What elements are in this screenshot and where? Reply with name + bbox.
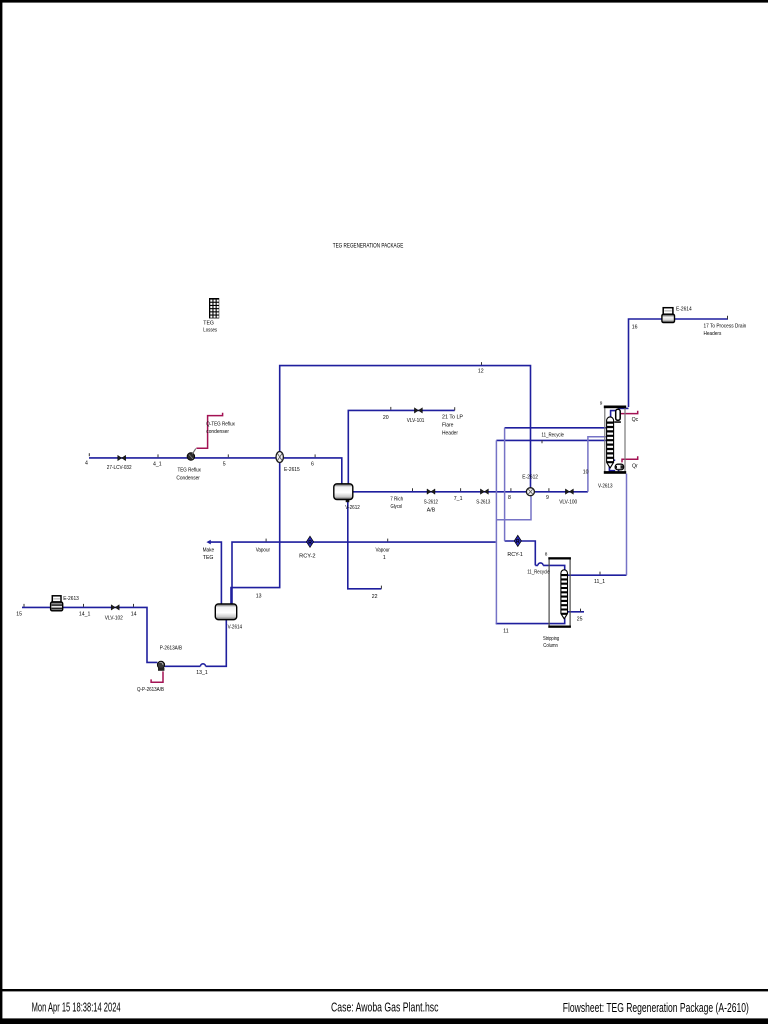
svg-text:VLV-101: VLV-101 [407,418,425,424]
svg-text:25: 25 [577,617,583,623]
svg-text:Vapour: Vapour [376,548,391,554]
svg-text:P-2613A/B: P-2613A/B [160,646,183,652]
svg-text:Vapour: Vapour [256,548,271,554]
svg-text:Case: Awoba Gas Plant.hsc: Case: Awoba Gas Plant.hsc [331,1000,439,1015]
svg-text:11_Recycle: 11_Recycle [542,432,565,438]
svg-text:S-2612: S-2612 [424,500,438,506]
svg-text:RCY-1: RCY-1 [507,552,523,558]
svg-text:E-2614: E-2614 [676,306,692,312]
svg-text:Make: Make [203,548,215,554]
svg-text:TEG: TEG [203,320,214,326]
svg-text:A/B: A/B [427,507,436,513]
svg-text:Header: Header [442,431,458,437]
svg-text:11_Recycle: 11_Recycle [527,570,550,576]
svg-text:V-2613: V-2613 [598,483,613,489]
svg-text:12: 12 [478,369,484,375]
svg-text:RCY-2: RCY-2 [299,554,316,560]
svg-text:4_1: 4_1 [153,461,162,467]
svg-text:TEG REGENERATION PACKAGE: TEG REGENERATION PACKAGE [333,243,404,250]
svg-text:R: R [516,539,520,545]
svg-text:14: 14 [131,611,137,617]
svg-text:15: 15 [16,611,22,617]
svg-text:6: 6 [311,461,314,467]
svg-text:7 Rich: 7 Rich [390,496,403,502]
svg-text:S-2613: S-2613 [476,500,490,506]
svg-text:Qr: Qr [632,464,638,470]
svg-text:4: 4 [85,460,88,466]
svg-text:7_1: 7_1 [454,496,463,502]
svg-text:1: 1 [383,555,386,561]
svg-text:20: 20 [383,415,389,421]
svg-text:8: 8 [508,495,511,501]
svg-text:E-2613: E-2613 [63,596,79,602]
svg-text:TEG: TEG [203,555,214,561]
svg-text:Losses: Losses [203,328,217,334]
svg-text:Column: Column [543,643,558,649]
svg-text:V-2614: V-2614 [228,624,243,630]
svg-text:27-LCV-032: 27-LCV-032 [107,465,132,471]
svg-text:E-2615: E-2615 [284,467,300,473]
svg-text:8: 8 [545,552,548,557]
svg-text:Flowsheet: TEG Regeneration Pa: Flowsheet: TEG Regeneration Package (A-2… [563,1000,749,1015]
svg-text:TEG Reflux: TEG Reflux [178,467,202,473]
svg-text:13_1: 13_1 [196,670,208,676]
svg-text:16: 16 [632,324,638,330]
svg-text:V-2612: V-2612 [345,505,360,511]
svg-text:5: 5 [223,461,226,467]
svg-text:Headers: Headers [704,331,722,337]
svg-text:Flare: Flare [442,423,454,429]
svg-text:17 To Process Drain: 17 To Process Drain [704,323,747,329]
svg-text:9: 9 [600,400,603,405]
svg-text:Q-TEG Reflux: Q-TEG Reflux [206,422,235,428]
svg-text:11_1: 11_1 [594,579,605,585]
svg-text:14_1: 14_1 [79,611,91,617]
svg-text:Condenser: Condenser [176,475,200,481]
svg-text:Qc: Qc [632,417,639,423]
svg-text:10: 10 [583,469,589,475]
svg-text:R: R [308,540,312,546]
svg-text:Mon Apr 15 18:38:14 2024: Mon Apr 15 18:38:14 2024 [32,1000,121,1015]
svg-text:21 To LP: 21 To LP [442,414,464,420]
svg-text:11: 11 [503,628,508,634]
svg-text:Glycol: Glycol [391,504,403,510]
svg-text:Stripping: Stripping [543,636,559,642]
svg-text:VLV-100: VLV-100 [559,500,577,506]
svg-text:9: 9 [546,495,549,501]
svg-text:condenser: condenser [206,429,229,435]
svg-text:13: 13 [256,593,262,599]
svg-text:Q-P-2613A/B: Q-P-2613A/B [137,687,164,693]
svg-text:E-2612: E-2612 [522,474,538,480]
svg-text:VLV-102: VLV-102 [105,616,123,622]
svg-text:22: 22 [372,594,378,600]
